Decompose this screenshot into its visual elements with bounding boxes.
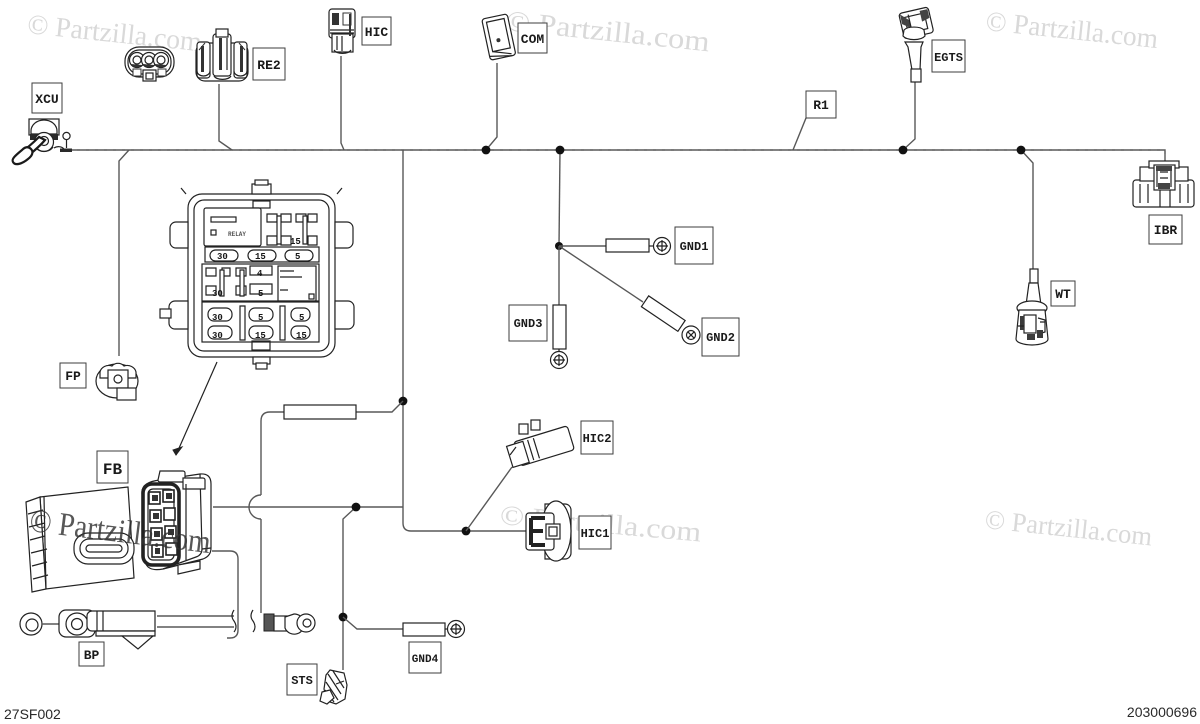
svg-text:5: 5 — [295, 252, 300, 262]
sleeve on wire — [284, 405, 356, 419]
connector HIC — [329, 9, 355, 53]
watermark mid-right — [984, 504, 1154, 551]
wire FB to harness — [213, 506, 403, 508]
svg-text:4: 4 — [257, 269, 263, 279]
wire COM drop — [486, 63, 497, 150]
label BP — [79, 642, 104, 666]
svg-text:HIC2: HIC2 — [583, 432, 612, 446]
svg-text:RE2: RE2 — [257, 58, 281, 73]
connector 3-way (unlabeled) — [125, 47, 174, 81]
svg-text:30: 30 — [217, 252, 228, 262]
wire BP leads — [157, 610, 255, 632]
relay box — [204, 208, 261, 246]
label HIC — [362, 17, 391, 45]
fuse box left lower ear — [169, 301, 188, 329]
connector HIC1 — [526, 501, 571, 561]
label HIC1 — [579, 516, 611, 549]
fuse box top connector — [252, 184, 271, 194]
wire FP drop — [119, 150, 129, 356]
svg-text:5: 5 — [258, 289, 263, 299]
middle section — [202, 264, 319, 301]
connector HIC2 — [506, 420, 575, 468]
label FB — [97, 451, 128, 483]
svg-text:XCU: XCU — [35, 92, 58, 107]
wire EGTS drop — [903, 82, 915, 150]
label EGTS — [932, 40, 965, 72]
node EGTS junction — [899, 146, 908, 155]
svg-text:GND1: GND1 — [680, 240, 709, 254]
ground GND2 terminal — [559, 246, 700, 344]
svg-text:27SF002: 27SF002 — [4, 706, 61, 722]
label HIC2 — [581, 421, 613, 454]
node mid harness junction — [399, 397, 408, 406]
watermark mid-center — [499, 500, 703, 549]
svg-text:© Partzilla.com: © Partzilla.com — [26, 9, 203, 58]
svg-text:GND3: GND3 — [514, 317, 543, 331]
top right fuse cluster — [267, 214, 317, 245]
svg-text:R1: R1 — [813, 98, 829, 113]
svg-text:© Partzilla.com: © Partzilla.com — [984, 504, 1154, 551]
svg-text:203000696: 203000696 — [1127, 704, 1197, 720]
wire HIC2 diagonal — [466, 467, 512, 531]
wire FB lower loop — [212, 551, 238, 638]
fuse box FB body — [160, 180, 354, 369]
svg-text:15: 15 — [255, 252, 266, 262]
node WT junction — [1017, 146, 1026, 155]
svg-text:WT: WT — [1055, 287, 1071, 302]
label STS — [287, 664, 317, 695]
wire main bus — [68, 150, 1165, 162]
svg-text:15: 15 — [255, 331, 266, 341]
label GND3 — [509, 305, 547, 341]
watermark mid-left dark — [28, 503, 213, 561]
fuse box right lower ear — [335, 301, 354, 329]
label RE2 — [253, 48, 285, 80]
label FP — [60, 363, 86, 388]
connector WT — [1016, 269, 1048, 345]
arrow fuse box to FB connector — [173, 362, 217, 455]
bottom fuse section — [202, 302, 319, 342]
connector COM — [482, 14, 516, 60]
svg-text:COM: COM — [521, 32, 545, 47]
label GND4 — [409, 642, 441, 673]
connector FB left half — [26, 487, 134, 592]
connector STS — [320, 670, 347, 704]
ground GND3 terminal — [551, 246, 568, 369]
terminal lug near BP — [264, 614, 315, 634]
watermark top-right — [984, 6, 1160, 55]
svg-text:30: 30 — [212, 313, 223, 323]
info sticker — [278, 266, 316, 301]
svg-text:15: 15 — [296, 331, 307, 341]
wire sleeve branch to fuse area — [249, 401, 403, 613]
watermark top-middle — [504, 5, 712, 58]
connector IBR — [1133, 161, 1194, 207]
fuse value band — [205, 247, 319, 262]
wire RE2 drop — [219, 84, 232, 150]
label COM — [518, 23, 547, 53]
node COM junction — [482, 146, 491, 155]
ground GND4 terminal — [403, 621, 465, 638]
svg-text:IBR: IBR — [1154, 223, 1178, 238]
svg-text:STS: STS — [291, 674, 313, 688]
wire HIC drop — [341, 56, 344, 150]
label R1 — [806, 91, 836, 118]
fuse box bottom tab — [252, 341, 270, 350]
wire HIC1 drop — [403, 150, 526, 531]
svg-text:5: 5 — [258, 313, 263, 323]
connector FP — [96, 363, 138, 400]
label IBR — [1149, 215, 1182, 244]
wire GND4 branch — [343, 617, 403, 629]
connector XCU — [13, 119, 72, 164]
label XCU — [32, 83, 62, 113]
svg-text:GND2: GND2 — [706, 331, 735, 345]
svg-text:EGTS: EGTS — [934, 51, 963, 65]
wire WT drop — [1021, 150, 1033, 269]
ground GND1 terminal — [559, 238, 671, 255]
label GND2 — [702, 318, 739, 356]
connector EGTS — [899, 7, 934, 82]
watermark top-left — [26, 9, 203, 58]
label WT — [1051, 281, 1075, 306]
connector FB right half — [142, 471, 211, 574]
wire R1 leader — [793, 118, 806, 150]
svg-text:© Partzilla.com: © Partzilla.com — [984, 6, 1160, 55]
svg-text:HIC: HIC — [365, 25, 389, 40]
svg-text:GND4: GND4 — [412, 654, 439, 666]
label GND1 — [675, 227, 713, 264]
svg-text:BP: BP — [84, 648, 100, 663]
node HIC2 junction — [462, 527, 471, 536]
node STS GND4 junction — [339, 613, 348, 622]
svg-text:30: 30 — [212, 331, 223, 341]
svg-text:RELAY: RELAY — [228, 231, 246, 238]
node ground bus junction — [556, 146, 565, 155]
fuse box left upper ear — [170, 222, 188, 248]
svg-text:FP: FP — [65, 369, 81, 384]
svg-text:HIC1: HIC1 — [581, 527, 610, 541]
wire ground drop — [559, 150, 560, 246]
svg-text:30: 30 — [212, 289, 223, 299]
connector BP assembly — [20, 610, 155, 649]
wire STS drop — [343, 507, 356, 670]
node FB junction — [352, 503, 361, 512]
connector RE2 — [196, 29, 248, 81]
fuse box right upper ear — [335, 222, 353, 248]
node ground split junction — [555, 242, 563, 250]
svg-text:FB: FB — [103, 461, 123, 479]
svg-text:5: 5 — [299, 313, 304, 323]
svg-text:15: 15 — [290, 237, 301, 247]
